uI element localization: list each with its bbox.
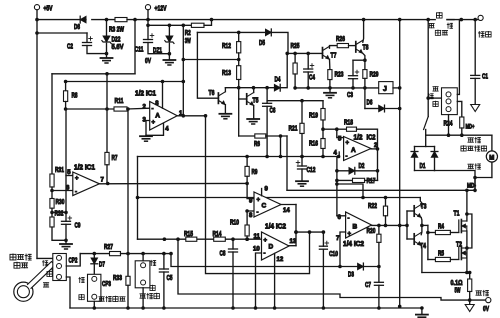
resistor R19: [321, 109, 325, 121]
wire T5 collector up: [253, 88, 255, 93]
wire junction to C9 rail: [52, 211, 66, 213]
wire R19-R16: [322, 120, 324, 129]
wire R21 to C12: [301, 134, 303, 167]
svg-text:R11: R11: [115, 98, 124, 105]
capacitor C4: [304, 68, 313, 70]
svg-text:C12: C12: [307, 167, 316, 174]
svg-text:R5: R5: [438, 251, 444, 258]
svg-text:C: C: [262, 203, 267, 210]
svg-text:4: 4: [165, 127, 169, 133]
wire to R18/pin5: [323, 128, 337, 130]
svg-text:T1: T1: [454, 211, 460, 218]
wire R13 bottom down to R6: [238, 80, 240, 137]
resistor R14: [214, 237, 226, 241]
label Chinese: red: [429, 24, 435, 28]
wire IC2B pin6 stub: [337, 215, 346, 217]
svg-text:C2: C2: [67, 44, 73, 51]
relay contact blade: [424, 117, 429, 130]
ground (T5): [247, 118, 259, 120]
wire pin8 supply row y81.5: [66, 82, 184, 91]
label Chinese: connect: [436, 12, 442, 18]
svg-text:B: B: [353, 224, 358, 231]
svg-text:+5V: +5V: [44, 6, 53, 13]
wire x135 down: [134, 20, 136, 74]
resistor R27: [110, 252, 121, 256]
svg-text:D1: D1: [420, 163, 426, 170]
svg-text:+: +: [264, 238, 268, 244]
op-amp 1/4 IC2 B: [346, 212, 372, 238]
svg-text:A: A: [155, 113, 160, 120]
wire x287 down to drain rail: [286, 136, 288, 190]
label Chinese: thick red (2 chars): [478, 32, 484, 38]
resistor R3 2W: [115, 18, 127, 22]
resistor R23: [328, 70, 332, 80]
transistor T7: [322, 48, 324, 58]
resistor R6: [255, 134, 266, 138]
capacitor C11: [144, 39, 153, 41]
svg-text:-: -: [257, 210, 259, 216]
svg-text:-: -: [75, 190, 77, 196]
wire IC2A pin5: [337, 129, 344, 137]
wire R11 to IC1A pin2: [127, 107, 150, 110]
op-amp 1/2 IC2 A: [344, 137, 371, 161]
wire x66 rail down (R8 bottom to C9): [65, 109, 67, 221]
resistor R24: [460, 117, 464, 128]
wire T7 base row: [287, 52, 322, 54]
capacitor C10: [319, 245, 327, 247]
resistor R12: [237, 42, 241, 53]
diode D6: [379, 105, 385, 111]
svg-text:+: +: [348, 232, 352, 238]
svg-text:R22: R22: [368, 203, 377, 210]
svg-text:MD-: MD-: [467, 183, 476, 190]
wire T4 base: [407, 238, 414, 240]
svg-text:R10: R10: [230, 220, 239, 227]
svg-text:D6: D6: [367, 100, 373, 107]
diode D1 b: [431, 152, 437, 158]
wire rail y156 (IC2A pin4 net): [138, 156, 339, 158]
svg-text:5W: 5W: [455, 288, 461, 295]
connector speed limiter: [135, 261, 150, 288]
wire IC1B pin6: [52, 190, 73, 192]
wire D5 to T7 base row: [271, 32, 288, 53]
transistor T4: [413, 234, 415, 244]
wire collector row y88: [225, 87, 274, 89]
wire R4 to T1 gate: [450, 232, 458, 234]
wire R29 bottom / D6 branch: [364, 78, 366, 108]
mosfet T2: [458, 247, 460, 259]
wire C10 bottom to rail: [322, 249, 324, 308]
wire T3 emitter down: [420, 218, 423, 226]
wire bottom rail y308: [70, 307, 422, 309]
svg-text:T5: T5: [253, 98, 259, 105]
wire limiter bottom: [142, 288, 144, 308]
svg-text:0V: 0V: [483, 306, 489, 313]
wire D1 bus to MD- rail: [435, 171, 476, 192]
wire x107 rail: [106, 74, 108, 153]
svg-text:T8: T8: [363, 45, 369, 52]
resistor R21: [300, 123, 304, 133]
label Chinese: red: [447, 23, 453, 28]
svg-text:R20: R20: [367, 228, 376, 235]
svg-text:12: 12: [277, 257, 284, 263]
wire x428 down: [427, 225, 429, 259]
wire to C11: [147, 25, 149, 39]
svg-text:13: 13: [290, 239, 297, 245]
svg-text:D8: D8: [74, 24, 80, 31]
svg-text:11: 11: [254, 234, 261, 240]
wire battery red down to connector: [457, 20, 459, 95]
svg-text:1/2 IC1: 1/2 IC1: [135, 91, 156, 98]
wire C2 bottom to D22 node: [87, 46, 107, 54]
svg-text:R13: R13: [222, 70, 231, 77]
svg-text:CP3: CP3: [102, 281, 111, 288]
resistor R20: [377, 234, 381, 242]
motor M (brushed): [486, 151, 497, 162]
wire R6 right: [266, 135, 287, 137]
svg-text:+: +: [346, 141, 350, 147]
svg-text:D22: D22: [112, 37, 121, 44]
wire R13 rail to R6: [239, 135, 255, 137]
svg-text:R19: R19: [309, 113, 318, 120]
wire IC2B output to T3/T4 bases: [372, 224, 408, 226]
wire to D1 bus: [425, 135, 427, 146]
svg-text:R25: R25: [291, 43, 300, 50]
capacitor C5: [159, 268, 168, 270]
svg-text:D7: D7: [99, 262, 105, 269]
svg-text:T2: T2: [456, 242, 462, 249]
wire IC1A pin8 up: [162, 82, 164, 109]
capacitor C8: [229, 248, 238, 250]
ground (C12): [296, 180, 308, 182]
resistor R10: [245, 225, 249, 236]
wire left rail x52 down: [51, 74, 53, 174]
relay coil J: [379, 82, 393, 94]
wire output rail y232: [296, 231, 323, 233]
wire IC2D pin12 down: [274, 253, 276, 308]
wire T7 emitter to R23: [329, 59, 331, 69]
wire top rail to D8: [37, 19, 86, 21]
svg-text:R15: R15: [184, 231, 193, 238]
diode D7: [91, 258, 97, 264]
wire x280 down: [280, 136, 282, 157]
label Chinese: brake power-off (4 chars): [99, 297, 105, 301]
wire CP3 to bottom rail: [93, 301, 95, 308]
wire to C10: [322, 232, 324, 246]
wire R7 to output line: [106, 165, 108, 184]
capacitor C3: [349, 75, 358, 77]
svg-text:T7: T7: [331, 53, 337, 60]
svg-text:R14: R14: [213, 231, 222, 238]
wire to C8: [232, 239, 234, 249]
wire R10 to input rail: [246, 236, 248, 239]
capacitor C9: [62, 220, 71, 222]
wire to 0V terminal: [470, 299, 486, 301]
wire drain rail y190: [287, 189, 475, 191]
capacitor C2: [83, 42, 92, 44]
transistor T3: [413, 206, 415, 216]
svg-text:D: D: [269, 244, 274, 251]
svg-text:T6: T6: [209, 90, 215, 97]
svg-text:R7: R7: [112, 155, 118, 162]
wire +5V rail down left side: [36, 10, 38, 259]
wire x137 down to input rail: [137, 157, 139, 240]
svg-text:-: -: [264, 251, 266, 257]
resistor R29: [363, 70, 367, 79]
resistor R33: [126, 276, 130, 285]
label Chinese: blue: [150, 285, 155, 291]
ground (IC1A pin3): [140, 135, 152, 137]
resistor R4: [435, 230, 450, 234]
label Chinese: black: [43, 283, 49, 287]
op-amp 1/4 IC2 D: [262, 232, 290, 260]
wire motor bottom: [491, 162, 493, 177]
wire connector to R24: [457, 101, 462, 117]
svg-text:R8: R8: [72, 93, 78, 100]
wire R2 to top rail: [204, 20, 212, 26]
wire T3 collector to rail y197: [420, 198, 422, 207]
wire IC1A output long route down-right: [206, 116, 310, 274]
ground (T6): [219, 113, 231, 115]
svg-text:10: 10: [253, 247, 260, 253]
svg-text:D2: D2: [359, 163, 365, 170]
wire IC1B output to IC2C: [99, 182, 247, 184]
resistor R22: [383, 206, 387, 216]
label Chinese: thick black (2 chars): [476, 291, 482, 295]
svg-text:DZ1: DZ1: [153, 48, 162, 55]
wire T2 drain bracket to T1 drain: [467, 214, 472, 248]
wire T6 emitter down: [224, 105, 226, 114]
svg-text:1/2: 1/2: [354, 135, 363, 142]
wire to C4: [307, 53, 309, 69]
wire T4 collector up: [420, 225, 423, 234]
capacitor C12: [298, 165, 307, 167]
ground (C9): [60, 243, 72, 245]
wire throttle to CP2 pin3: [51, 268, 54, 277]
wire to C2 top: [86, 33, 88, 42]
wire IC1A pin3 down: [146, 121, 150, 136]
resistor R2 3W: [191, 23, 204, 27]
wire input rail y239: [138, 238, 262, 240]
wire +12V row: [148, 24, 191, 26]
throttle grip (Hall speed handle): [14, 282, 33, 301]
capacitor C7: [374, 281, 383, 283]
svg-text:R21: R21: [289, 126, 298, 133]
wire IC1A pin4 to pin3 gnd: [146, 123, 164, 135]
wire IC2C pin9: [247, 198, 254, 200]
diode D8: [80, 16, 86, 22]
svg-text:7: 7: [101, 178, 105, 184]
wire R26 to T8 base: [349, 45, 356, 47]
label Chinese: yellow: [79, 294, 84, 300]
wire R18 feedback to output: [357, 129, 378, 149]
ground (rail y88): [324, 92, 336, 94]
wire C8 bottom to bottom rail: [232, 252, 234, 308]
wire D6 to x400 rail: [385, 108, 400, 110]
resistor R25: [293, 63, 297, 74]
wire source rail y272: [422, 272, 470, 274]
wire ground return y294: [178, 239, 470, 300]
wire D1 bottom bus: [415, 170, 435, 172]
ground (bottom rail): [416, 314, 428, 316]
resistor R7: [105, 152, 109, 164]
svg-text:C7: C7: [365, 282, 371, 289]
wire rail y88: [295, 87, 379, 89]
wire to D7: [93, 254, 95, 258]
resistor R16: [321, 139, 325, 149]
svg-text:C4: C4: [309, 75, 315, 82]
wire D4 up to T7 row: [280, 53, 287, 87]
wire R12/R13 junction to x183: [183, 59, 238, 61]
resistor R8: [64, 91, 68, 102]
wire C11 bottom to DZ1 node: [148, 43, 169, 54]
wire to T6 base: [197, 32, 218, 98]
svg-text:-: -: [348, 216, 350, 222]
resistor R26: [337, 44, 348, 48]
resistor R30: [50, 199, 54, 209]
wire y266 to D3: [171, 254, 358, 267]
label Chinese: green: [47, 271, 52, 277]
wire CP2 pin3 to bottom rail: [66, 277, 70, 308]
wire throttle to CP2 pin1: [52, 258, 54, 263]
wire IC2A pin4 stub: [338, 152, 340, 157]
op-amp 1/2 IC1 B: [73, 172, 100, 196]
wire CP2 pin2 out to R27 rail: [66, 254, 80, 266]
wire to D6: [365, 108, 379, 110]
wire J to x400 rail: [393, 87, 400, 89]
wire to C1: [474, 20, 476, 76]
wire +5V to CP2 pin1: [37, 257, 53, 259]
wire R16 to rail y156: [322, 149, 324, 157]
chassis arrow (0V): [465, 305, 474, 312]
connector (black/red/black): [442, 88, 458, 115]
svg-text:CP2: CP2: [69, 258, 78, 265]
svg-text:5.6V: 5.6V: [112, 44, 124, 51]
mosfet T1: [458, 220, 460, 232]
wire throttle to CP2 pin2: [53, 266, 55, 267]
wire junction to R4/R5: [422, 224, 428, 226]
label Chinese: black: [433, 101, 438, 107]
resistor R15: [186, 237, 197, 241]
wire output down: [295, 205, 297, 246]
wire connector bottom to MD+ rail: [448, 115, 450, 136]
svg-text:R16: R16: [309, 141, 318, 148]
svg-text:IC2: IC2: [367, 135, 376, 142]
terminal +5V: [34, 5, 39, 10]
wire +12V down: [147, 10, 149, 25]
resistor R17: [353, 178, 365, 182]
svg-text:2: 2: [143, 105, 147, 111]
wire y33 to C2: [37, 32, 87, 34]
transistor T5: [246, 94, 248, 104]
transistor T8: [355, 42, 357, 52]
wire to DZ1: [168, 25, 170, 36]
svg-text:R26: R26: [336, 36, 345, 43]
svg-text:D3: D3: [348, 272, 354, 279]
ground (DZ1): [163, 59, 175, 61]
svg-text:C9: C9: [75, 223, 81, 230]
connector CP3 (brake cutoff): [88, 274, 101, 301]
svg-text:R9: R9: [252, 169, 258, 176]
wire to R12: [238, 32, 240, 41]
svg-text:R12: R12: [222, 43, 231, 50]
svg-text:R4: R4: [438, 224, 444, 231]
svg-text:+: +: [75, 176, 79, 182]
wire T5 node to R19/R21 feed: [267, 100, 323, 102]
svg-text:R30: R30: [56, 199, 65, 206]
wire x337 to rail y197: [337, 184, 363, 198]
diode D2: [349, 168, 355, 174]
label Chinese: brushed motor (4 chars): [461, 145, 466, 151]
resistor R5: [435, 257, 450, 261]
terminal 0V: [486, 298, 491, 303]
svg-text:8: 8: [249, 213, 253, 219]
wire to C3: [353, 59, 365, 61]
wire MD+ rail: [426, 134, 492, 136]
wire T5 base: [239, 98, 247, 100]
resistor R9: [245, 166, 249, 176]
connector CP2: [53, 254, 67, 281]
wire IC2C pin8: [247, 210, 254, 212]
wire IC1B pin5: [66, 175, 73, 177]
wire C6 bottom to rail y156: [266, 106, 268, 156]
label Chinese: speed limiter (3 chars): [140, 294, 146, 298]
svg-text:R2: R2: [185, 30, 191, 37]
svg-text:0V: 0V: [145, 58, 151, 65]
wire R9 bottom / pin9: [246, 176, 248, 198]
svg-text:C11: C11: [135, 47, 144, 54]
label Chinese: black: [433, 87, 439, 91]
svg-text:R27: R27: [104, 244, 113, 251]
label Chinese: thick green (2 chars): [468, 164, 474, 168]
wire R20 bottom: [378, 242, 380, 282]
wire T1 drain up: [466, 190, 468, 221]
op-amp 1/2 IC1 A: [150, 102, 178, 131]
op-amp 1/4 IC2 C: [254, 192, 281, 217]
zener D22 5.6V: [103, 36, 110, 42]
svg-text:M: M: [489, 156, 494, 162]
wire output down to D2/R17: [377, 149, 379, 181]
svg-text:R23: R23: [335, 72, 344, 79]
wire node to D22: [106, 20, 108, 36]
wire rail y197: [138, 197, 421, 199]
wire base tie vertical: [406, 211, 408, 239]
wire IC2A output: [371, 148, 378, 150]
svg-text:C3: C3: [347, 92, 353, 99]
svg-text:-: -: [152, 107, 154, 113]
label Chinese: steel wire (2 chars): [435, 30, 440, 36]
wire y32.4 to D5: [197, 31, 265, 33]
wire T5 emitter down: [253, 106, 255, 119]
svg-text:+12V: +12V: [155, 6, 167, 13]
svg-text:C6: C6: [270, 108, 276, 115]
svg-text:R18: R18: [344, 120, 353, 127]
svg-text:0.1Ω: 0.1Ω: [451, 280, 463, 287]
svg-text:R31: R31: [55, 167, 64, 174]
wire D22 to ground: [106, 43, 108, 57]
svg-text:R32: R32: [55, 211, 64, 218]
diode D4: [274, 85, 280, 91]
resistor R31: [50, 174, 54, 187]
wire DZ1 to ground: [168, 43, 170, 59]
wire IC1A output: [177, 115, 205, 117]
label Chinese: handle (2 chars): [14, 262, 20, 268]
wire T6 collector up: [224, 88, 226, 92]
svg-text:C10: C10: [329, 251, 338, 258]
wire IC2C output: [281, 204, 296, 206]
diode D1 a: [411, 152, 417, 158]
wire IC2B pin7 down: [340, 232, 346, 267]
